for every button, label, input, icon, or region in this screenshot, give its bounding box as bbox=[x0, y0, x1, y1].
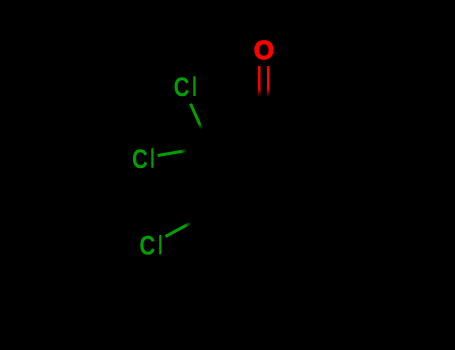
atom Cl1: l bar bbox=[193, 76, 195, 96]
bond C2-Cl1 bbox=[191, 104, 202, 129]
bond C2-Cl2 bbox=[158, 151, 187, 156]
bond C1=O double bond, left line bbox=[258, 66, 261, 97]
svg-text:O: O bbox=[254, 35, 274, 65]
atom Cl3: l bar bbox=[159, 235, 161, 254]
bond C1=O double bond, right line bbox=[267, 66, 270, 97]
svg-text:C: C bbox=[174, 73, 190, 103]
bond C3-Cl3 bbox=[166, 223, 192, 237]
svg-text:C: C bbox=[132, 145, 148, 175]
atom Cl2: l bar bbox=[151, 148, 153, 168]
svg-text:C: C bbox=[139, 231, 155, 261]
